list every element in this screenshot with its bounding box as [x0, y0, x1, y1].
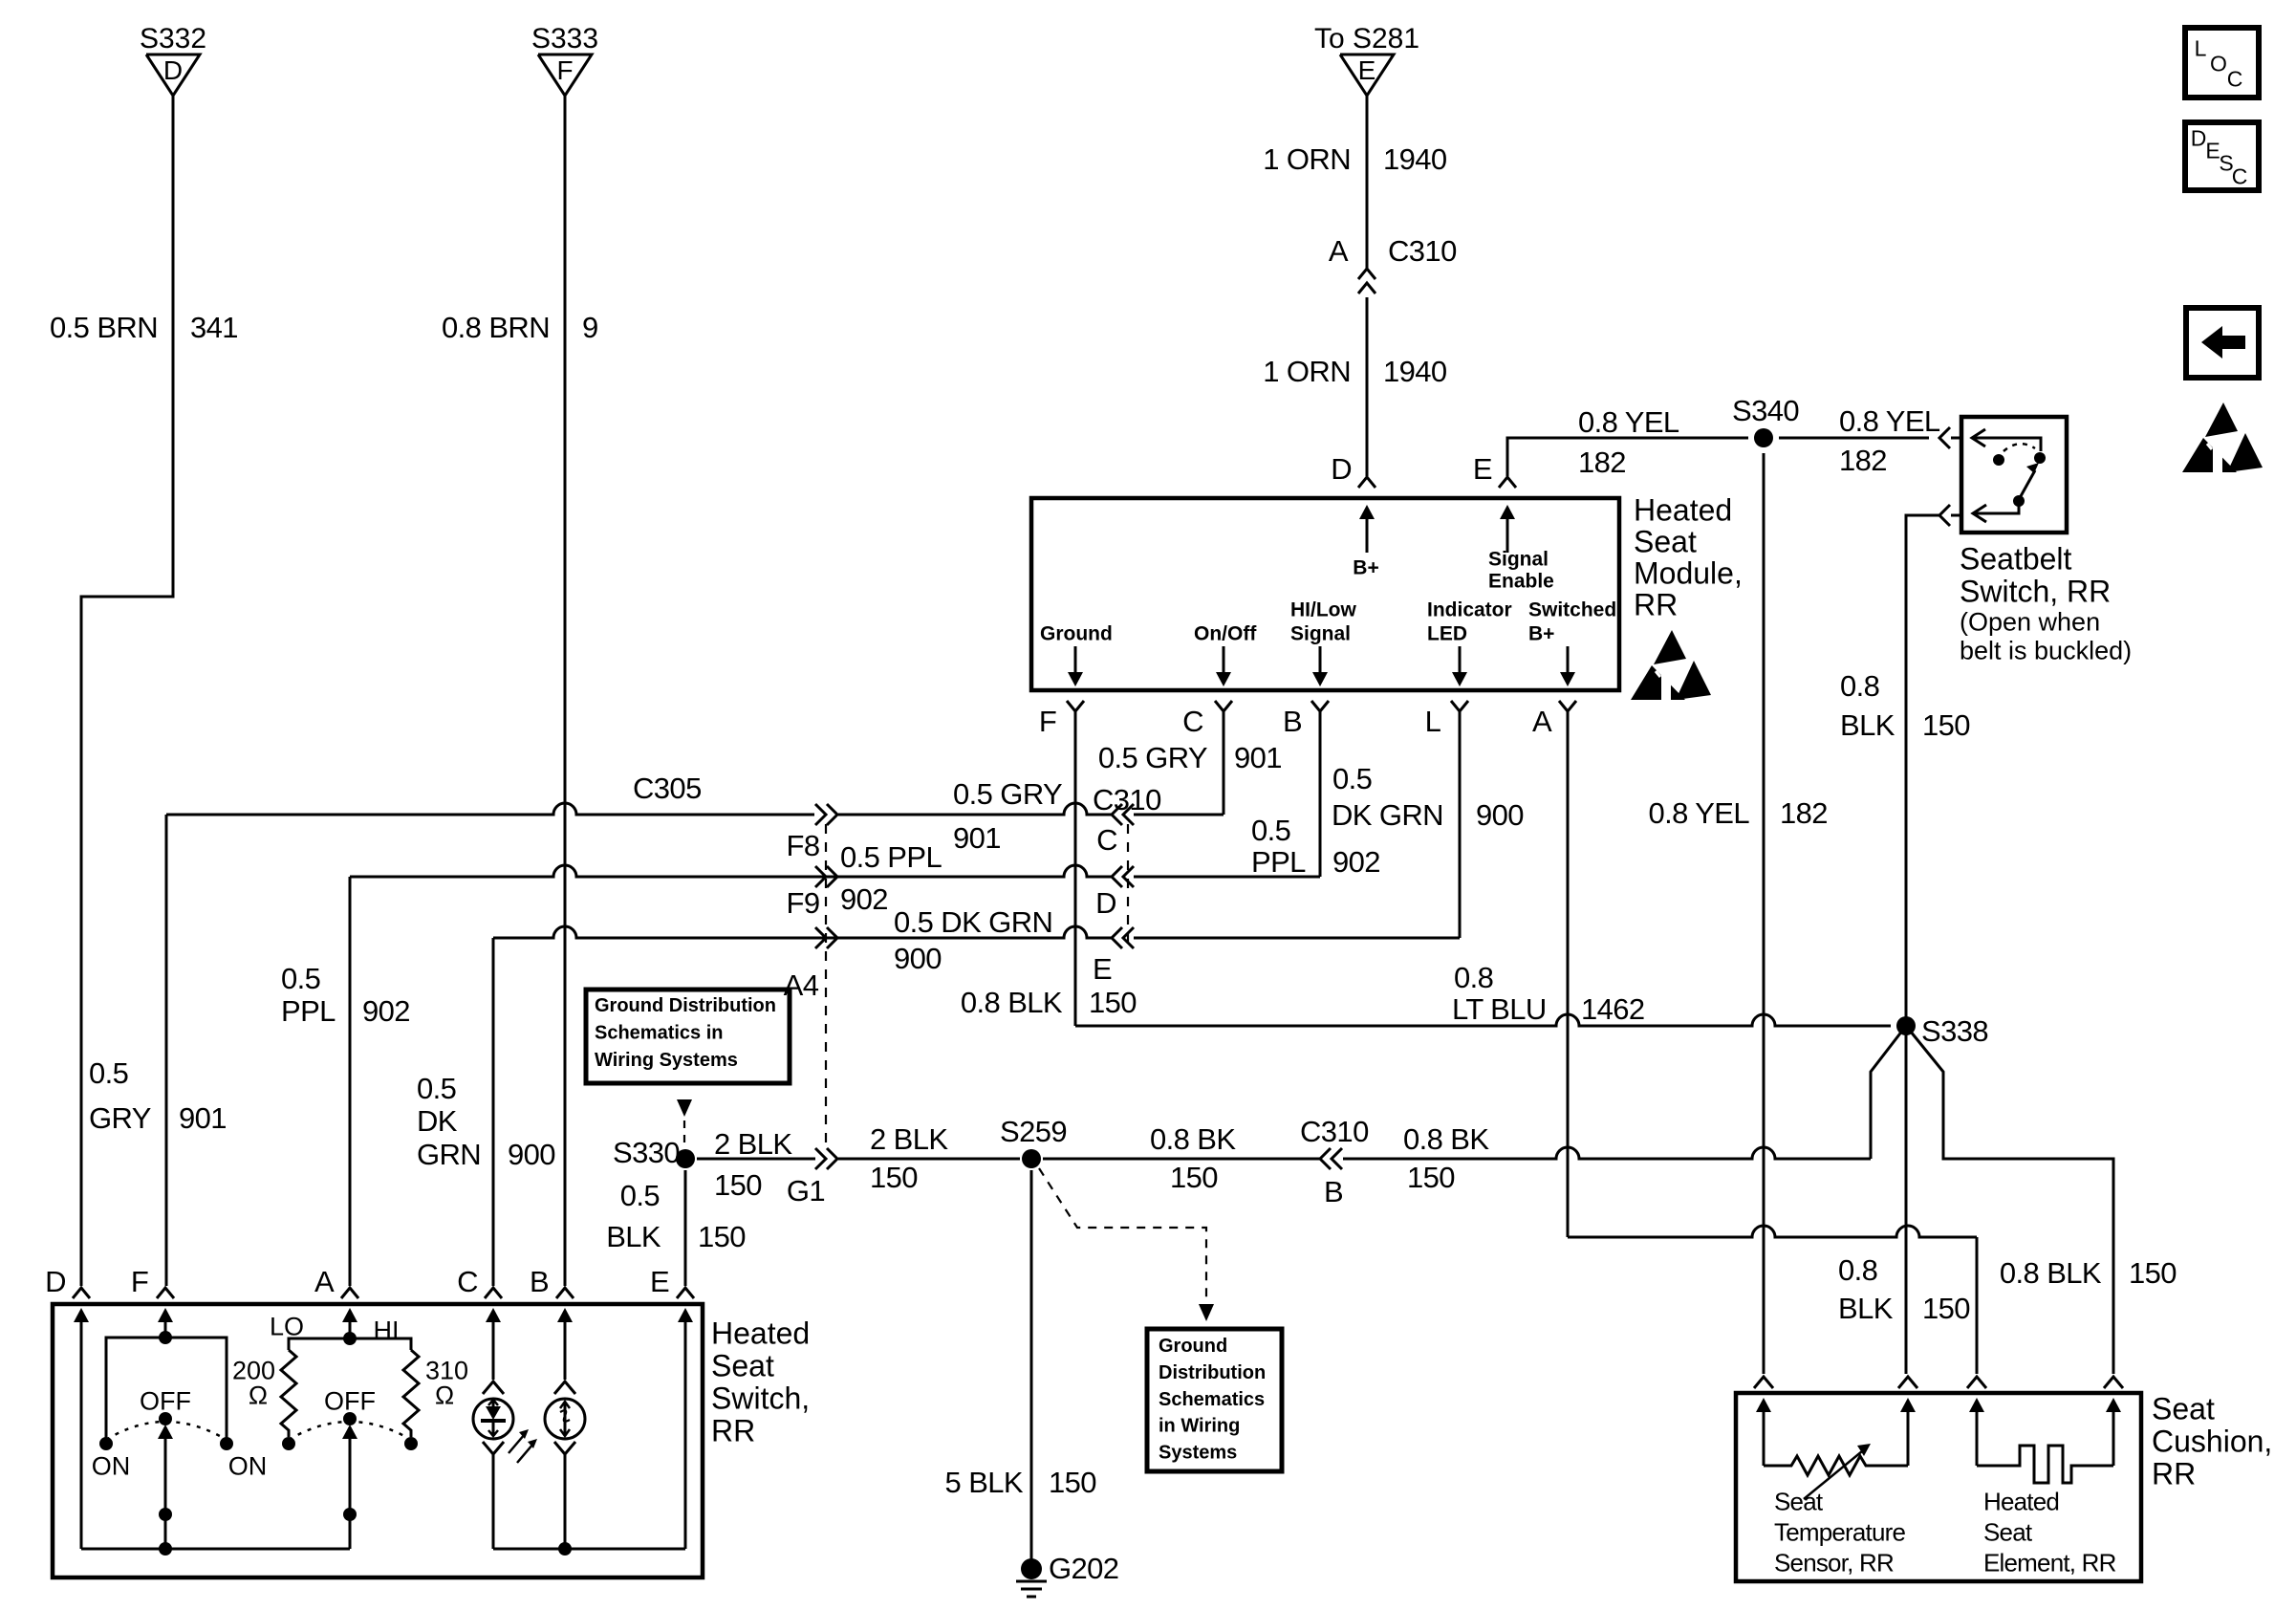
resistor 310 ohm	[403, 1350, 419, 1437]
wire 0.5 BLK 150 from S330 to switch pin E	[684, 1170, 687, 1286]
svg-text:150: 150	[1922, 1292, 1970, 1325]
svg-text:5 BLK: 5 BLK	[945, 1466, 1024, 1499]
svg-text:0.8 YEL: 0.8 YEL	[1578, 405, 1679, 439]
Heated Seat Switch RR box	[53, 1304, 703, 1577]
svg-text:901: 901	[179, 1101, 227, 1135]
svg-text:182: 182	[1780, 796, 1828, 830]
svg-text:902: 902	[840, 882, 888, 916]
switch pin E connector	[677, 1288, 694, 1298]
svg-text:Signal: Signal	[1290, 623, 1351, 645]
svg-text:0.5: 0.5	[89, 1056, 128, 1090]
heated seat element RR	[1976, 1410, 1979, 1466]
svg-text:Ground Distribution: Ground Distribution	[595, 995, 776, 1016]
switch pin C connector	[485, 1288, 502, 1298]
svg-text:150: 150	[1170, 1161, 1218, 1194]
splice symbol S332	[146, 54, 200, 96]
svg-text:902: 902	[362, 994, 410, 1028]
wire seatbelt to S338 riser 0.8 BLK 150	[1939, 505, 1950, 526]
svg-text:Heated: Heated	[1634, 493, 1732, 528]
svg-text:C: C	[1096, 823, 1117, 857]
svg-text:Seat: Seat	[1634, 525, 1697, 559]
svg-text:0.8: 0.8	[1838, 1253, 1877, 1287]
svg-text:A: A	[1329, 234, 1349, 268]
svg-text:RR: RR	[1634, 588, 1678, 622]
svg-text:0.5: 0.5	[620, 1179, 660, 1212]
svg-text:0.8 YEL: 0.8 YEL	[1648, 796, 1749, 830]
svg-text:0.5: 0.5	[1332, 762, 1372, 795]
svg-text:1940: 1940	[1383, 355, 1447, 388]
svg-text:On/Off: On/Off	[1194, 623, 1257, 645]
cushion pin 1 connector	[1754, 1377, 1773, 1388]
module pin D chevron and label	[1358, 477, 1375, 488]
splice symbol To S281	[1340, 54, 1394, 96]
svg-text:PPL: PPL	[1251, 845, 1306, 879]
svg-text:150: 150	[698, 1220, 746, 1253]
svg-text:Switch,: Switch,	[711, 1382, 810, 1416]
svg-text:C: C	[1182, 705, 1203, 738]
splice symbol S333	[538, 54, 592, 96]
ESD symbol for module	[1654, 630, 1686, 664]
wire 0.8 BK 150 from C310 to S338 riser	[1343, 1147, 1871, 1159]
dashed leader from callout to S330	[677, 1099, 692, 1117]
svg-text:BLK: BLK	[1838, 1292, 1894, 1325]
svg-text:C310: C310	[1300, 1115, 1369, 1148]
svg-text:1 ORN: 1 ORN	[1263, 355, 1351, 388]
svg-text:E: E	[1358, 55, 1376, 85]
cushion pin 2 connector	[1898, 1377, 1917, 1388]
splice S340	[1754, 428, 1773, 447]
svg-text:2 BLK: 2 BLK	[870, 1122, 948, 1156]
svg-text:0.5: 0.5	[1251, 814, 1290, 847]
svg-text:G1: G1	[787, 1174, 825, 1207]
svg-text:Schematics: Schematics	[1159, 1389, 1265, 1410]
svg-text:0.8 BK: 0.8 BK	[1150, 1122, 1236, 1156]
seatbelt switch internal contacts	[1972, 438, 2041, 451]
seatbelt switch movable arm	[2013, 495, 2025, 507]
svg-text:Element, RR: Element, RR	[1983, 1548, 2116, 1577]
svg-text:341: 341	[190, 311, 238, 344]
svg-text:F9: F9	[787, 886, 820, 920]
svg-text:0.5 DK GRN: 0.5 DK GRN	[894, 905, 1052, 939]
switch pole A with arrow	[349, 1320, 352, 1338]
svg-text:S259: S259	[1000, 1115, 1067, 1148]
svg-text:ON: ON	[228, 1452, 268, 1481]
svg-text:L: L	[2195, 35, 2207, 60]
switch 1 contacts ON OFF ON	[99, 1437, 113, 1450]
svg-text:E: E	[650, 1265, 669, 1298]
svg-text:F: F	[556, 55, 573, 85]
svg-text:900: 900	[508, 1138, 555, 1171]
svg-text:150: 150	[714, 1168, 762, 1202]
switch 2 bracket LO HI	[289, 1338, 411, 1350]
svg-text:BLK: BLK	[1840, 708, 1895, 742]
wire 0.8 BK 150 from S259 to connector C310 B	[1043, 1158, 1320, 1161]
wire 0.8 BRN 9 from S333 to switch pin B	[564, 96, 567, 1286]
module bottom pin L connector	[1451, 701, 1468, 711]
svg-text:150: 150	[1089, 986, 1137, 1019]
svg-text:Ω: Ω	[435, 1382, 454, 1410]
S338 left riser	[1871, 1026, 1906, 1159]
splice S330	[676, 1149, 695, 1168]
switch pin B connector	[556, 1288, 574, 1298]
indicator bulb in switch	[564, 1320, 567, 1380]
inline connector C310 pin A	[1358, 269, 1375, 279]
svg-text:Cushion,: Cushion,	[2152, 1425, 2272, 1459]
svg-text:A: A	[314, 1265, 335, 1298]
svg-text:0.5 GRY: 0.5 GRY	[1098, 741, 1207, 774]
switch pin F connector	[157, 1288, 174, 1298]
splice S259	[1022, 1149, 1041, 1168]
svg-text:Seatbelt: Seatbelt	[1960, 542, 2072, 577]
switch 1 pole arrow	[164, 1437, 167, 1514]
wire 1 ORN 1940 upper segment	[1366, 96, 1369, 269]
seat temperature sensor RR	[1763, 1410, 1765, 1466]
svg-text:L: L	[1425, 705, 1441, 738]
svg-text:Systems: Systems	[1159, 1442, 1237, 1463]
svg-text:0.8: 0.8	[1840, 669, 1879, 703]
svg-text:HI: HI	[374, 1316, 400, 1345]
module bottom pin F connector	[1067, 701, 1084, 711]
ESD symbol top right	[2205, 402, 2238, 437]
svg-text:Switch, RR: Switch, RR	[1960, 575, 2111, 609]
svg-text:B: B	[1324, 1175, 1343, 1208]
svg-text:PPL: PPL	[281, 994, 336, 1028]
svg-text:0.5 GRY: 0.5 GRY	[953, 777, 1062, 811]
svg-text:GRN: GRN	[417, 1138, 481, 1171]
svg-text:D: D	[163, 55, 183, 85]
back arrow legend box	[2186, 308, 2259, 378]
svg-text:C: C	[2227, 66, 2243, 91]
svg-text:F: F	[131, 1265, 148, 1298]
svg-text:150: 150	[1407, 1161, 1455, 1194]
cushion pin 4 connector	[2104, 1377, 2123, 1388]
svg-text:C: C	[2232, 163, 2248, 188]
svg-text:Temperature: Temperature	[1774, 1517, 1905, 1546]
switch pole E	[684, 1320, 687, 1549]
switch 2 pole arrow	[349, 1437, 352, 1514]
connector C310 dashed line	[1127, 824, 1129, 942]
resistor 200 ohm	[281, 1350, 296, 1437]
svg-text:HI/Low: HI/Low	[1290, 599, 1356, 621]
svg-text:Ω: Ω	[249, 1382, 268, 1410]
switch 2 contacts	[282, 1437, 295, 1450]
LED emission arrows	[509, 1434, 525, 1453]
svg-text:0.5: 0.5	[417, 1072, 456, 1105]
wire 0.8 YEL 182 from module E to S340	[1507, 438, 1748, 476]
svg-text:Seat: Seat	[1983, 1517, 2033, 1546]
svg-text:Signal: Signal	[1488, 549, 1549, 571]
cushion pin 3 connector	[1967, 1377, 1986, 1388]
module bottom pin A connector	[1559, 701, 1576, 711]
svg-text:E: E	[1093, 952, 1112, 986]
svg-text:S340: S340	[1732, 394, 1799, 427]
module pin E chevron and label	[1499, 477, 1516, 488]
svg-text:Schematics in: Schematics in	[595, 1023, 724, 1044]
module bottom pin B connector	[1311, 701, 1329, 711]
svg-text:G202: G202	[1049, 1552, 1118, 1585]
svg-text:0.5: 0.5	[281, 962, 320, 995]
DESC legend box	[2185, 122, 2259, 190]
svg-text:S330: S330	[613, 1136, 680, 1169]
svg-text:150: 150	[1049, 1466, 1096, 1499]
svg-text:LED: LED	[1427, 623, 1467, 645]
indicator LED in switch	[492, 1320, 495, 1380]
svg-text:O: O	[2210, 51, 2227, 76]
svg-text:DK GRN: DK GRN	[1332, 798, 1443, 832]
svg-text:B+: B+	[1528, 623, 1554, 645]
svg-text:OFF: OFF	[324, 1387, 376, 1416]
svg-text:LO: LO	[270, 1313, 304, 1341]
svg-text:182: 182	[1839, 444, 1887, 477]
svg-text:150: 150	[1922, 708, 1970, 742]
svg-text:9: 9	[582, 311, 598, 344]
svg-text:900: 900	[1476, 798, 1524, 832]
module internal B+ arrow	[1366, 517, 1369, 553]
svg-text:150: 150	[2129, 1256, 2177, 1290]
svg-text:Enable: Enable	[1488, 571, 1554, 593]
wire 0.8 BLK 150 module Ground F to S338	[1074, 711, 1077, 1026]
svg-text:BLK: BLK	[606, 1220, 661, 1253]
Ground Distribution Schematics callout box lower	[1147, 1329, 1282, 1471]
svg-text:S338: S338	[1921, 1014, 1988, 1048]
bottom rail right	[493, 1548, 685, 1551]
svg-text:Distribution: Distribution	[1159, 1362, 1266, 1383]
Seat Cushion RR box	[1736, 1393, 2141, 1581]
svg-text:Module,: Module,	[1634, 556, 1743, 591]
wire 1 ORN 1940 lower segment to module pin D	[1366, 297, 1369, 476]
inline connector G1	[815, 1148, 826, 1169]
svg-text:0.5 PPL: 0.5 PPL	[840, 840, 942, 874]
svg-text:D: D	[45, 1265, 66, 1298]
svg-text:C305: C305	[633, 772, 702, 805]
svg-text:RR: RR	[711, 1414, 755, 1448]
svg-text:RR: RR	[2152, 1457, 2196, 1491]
svg-text:Heated: Heated	[711, 1316, 810, 1351]
svg-text:OFF: OFF	[140, 1387, 191, 1416]
svg-text:C310: C310	[1388, 234, 1457, 268]
svg-text:ON: ON	[92, 1452, 131, 1481]
svg-text:D: D	[1331, 452, 1352, 486]
svg-text:C310: C310	[1093, 783, 1161, 816]
wire 0.8 YEL 182 from S340 down to seat cushion pin 1	[1763, 453, 1765, 1374]
svg-text:in Wiring: in Wiring	[1159, 1416, 1240, 1437]
svg-text:F: F	[1039, 705, 1056, 738]
svg-text:0.8 BLK: 0.8 BLK	[2000, 1256, 2102, 1290]
svg-text:S333: S333	[531, 23, 598, 54]
svg-text:900: 900	[894, 942, 942, 975]
svg-text:1462: 1462	[1581, 992, 1645, 1026]
svg-text:150: 150	[870, 1161, 918, 1194]
svg-text:B: B	[530, 1265, 549, 1298]
svg-text:2 BLK: 2 BLK	[714, 1127, 792, 1161]
svg-text:Seat: Seat	[711, 1349, 774, 1383]
wire 0.5 GRY 901 from switch F to module C On/Off	[166, 803, 814, 815]
svg-text:To S281: To S281	[1314, 23, 1419, 54]
svg-text:0.8 BLK: 0.8 BLK	[961, 986, 1063, 1019]
ground G202	[1021, 1558, 1042, 1579]
svg-text:Wiring Systems: Wiring Systems	[595, 1050, 738, 1071]
module internal Signal Enable arrow	[1506, 517, 1509, 553]
inline connector C310 pin B	[1332, 1148, 1342, 1169]
wire 0.5 BRN 341 from S332 to switch pin D	[81, 96, 173, 1286]
svg-text:belt is buckled): belt is buckled)	[1960, 637, 2132, 665]
wire 0.5 PPL 902 from switch A to module B HI/Low	[350, 865, 877, 877]
svg-text:A: A	[1532, 705, 1552, 738]
svg-text:0.5 BRN: 0.5 BRN	[50, 311, 158, 344]
svg-text:Indicator: Indicator	[1427, 599, 1512, 621]
LOC legend box	[2185, 28, 2259, 98]
switch pole F with arrow	[164, 1320, 167, 1338]
wire 5 BLK 150 from S259 to G202	[1030, 1170, 1033, 1559]
module bottom pin C connector	[1215, 701, 1232, 711]
bottom rail left	[81, 1548, 350, 1551]
Ground Distribution Schematics callout box upper	[586, 990, 790, 1083]
svg-text:901: 901	[1234, 741, 1282, 774]
splice S338	[1896, 1016, 1916, 1035]
svg-text:S332: S332	[140, 23, 206, 54]
svg-text:F8: F8	[787, 829, 820, 862]
svg-text:Seat: Seat	[1774, 1487, 1824, 1515]
svg-text:LT BLU: LT BLU	[1452, 992, 1547, 1026]
svg-text:1 ORN: 1 ORN	[1263, 142, 1351, 176]
svg-text:901: 901	[953, 821, 1001, 855]
S338 right branch to seat cushion pin 4	[1906, 1026, 2113, 1374]
wire 0.8 LT BLU 1462 from module A to seat cushion pin 3	[1567, 711, 1570, 1237]
svg-text:B: B	[1283, 705, 1302, 738]
svg-text:(Open when: (Open when	[1960, 608, 2100, 637]
svg-text:DK: DK	[417, 1104, 458, 1138]
svg-text:E: E	[1473, 452, 1492, 486]
svg-text:Heated: Heated	[1983, 1487, 2059, 1515]
svg-text:0.8: 0.8	[1454, 961, 1493, 994]
switch pin D connector	[73, 1288, 90, 1298]
svg-text:1940: 1940	[1383, 142, 1447, 176]
svg-text:D: D	[1095, 886, 1116, 920]
Seatbelt Switch RR box	[1961, 417, 2067, 533]
svg-text:182: 182	[1578, 446, 1626, 479]
dashed leader from S259 to lower callout	[1039, 1168, 1206, 1300]
svg-text:D: D	[2191, 125, 2207, 150]
wire 2 BLK 150 from S330 to connector G1	[697, 1158, 815, 1161]
svg-text:Seat: Seat	[2152, 1392, 2215, 1426]
wire 0.8 YEL 182 from S340 to seatbelt switch	[1779, 437, 1929, 440]
switch pole D with arrow	[80, 1320, 83, 1549]
svg-text:0.8 BRN: 0.8 BRN	[442, 311, 550, 344]
svg-text:902: 902	[1332, 845, 1380, 879]
Heated Seat Module RR box	[1031, 498, 1619, 690]
svg-text:C: C	[457, 1265, 478, 1298]
connector C305 dashed line	[825, 824, 827, 1149]
svg-text:B+: B+	[1353, 557, 1378, 579]
svg-text:0.8 YEL: 0.8 YEL	[1839, 404, 1940, 438]
wire 0.5 DK GRN 900 from switch C to module L Indicator LED	[493, 926, 938, 938]
svg-text:0.8 BK: 0.8 BK	[1403, 1122, 1489, 1156]
svg-text:Ground: Ground	[1040, 623, 1113, 645]
switch 1 bracket	[106, 1338, 227, 1444]
svg-text:Ground: Ground	[1159, 1336, 1227, 1357]
svg-text:GRY: GRY	[89, 1101, 151, 1135]
switch pin A connector	[341, 1288, 358, 1298]
svg-text:Switched: Switched	[1528, 599, 1616, 621]
svg-text:Sensor, RR: Sensor, RR	[1774, 1548, 1894, 1577]
wire 2 BLK 150 from G1 to S259	[838, 1158, 1020, 1161]
